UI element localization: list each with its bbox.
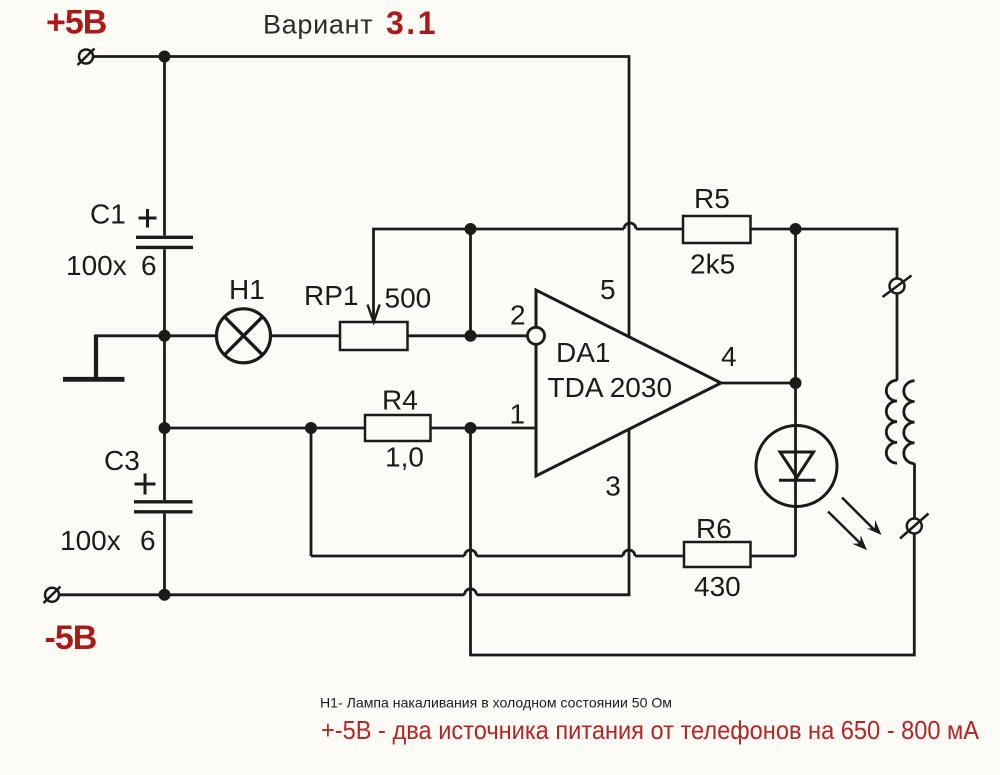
svg-text:TDA 2030: TDA 2030 (548, 372, 673, 403)
svg-text:5: 5 (600, 274, 616, 305)
svg-text:3.1: 3.1 (386, 5, 438, 41)
svg-text:2: 2 (510, 299, 526, 330)
svg-text:R6: R6 (696, 513, 732, 544)
svg-text:R5: R5 (694, 183, 730, 214)
svg-text:Н1- Лампа накаливания в холодн: Н1- Лампа накаливания в холодном состоян… (320, 695, 672, 711)
svg-text:2k5: 2k5 (690, 249, 735, 280)
svg-text:RP1: RP1 (304, 280, 358, 311)
svg-text:+-5В - два источника питания о: +-5В - два источника питания от телефоно… (321, 715, 980, 745)
svg-text:DA1: DA1 (556, 337, 610, 368)
svg-text:3: 3 (605, 471, 621, 502)
svg-text:1,0: 1,0 (385, 442, 424, 473)
svg-text:430: 430 (694, 571, 741, 602)
svg-text:4: 4 (721, 341, 737, 372)
svg-text:-5В: -5В (45, 619, 97, 657)
svg-text:1: 1 (510, 399, 526, 430)
svg-text:C3: C3 (104, 445, 140, 476)
svg-text:100x: 100x (60, 525, 121, 556)
svg-text:Вариант: Вариант (263, 10, 373, 40)
svg-text:H1: H1 (229, 274, 265, 305)
svg-text:500: 500 (385, 283, 432, 314)
svg-text:6: 6 (140, 525, 156, 556)
svg-text:100x: 100x (66, 250, 127, 281)
svg-text:+5В: +5В (46, 4, 107, 42)
svg-text:R4: R4 (382, 385, 418, 416)
svg-text:6: 6 (141, 250, 157, 281)
svg-text:C1: C1 (90, 199, 126, 230)
